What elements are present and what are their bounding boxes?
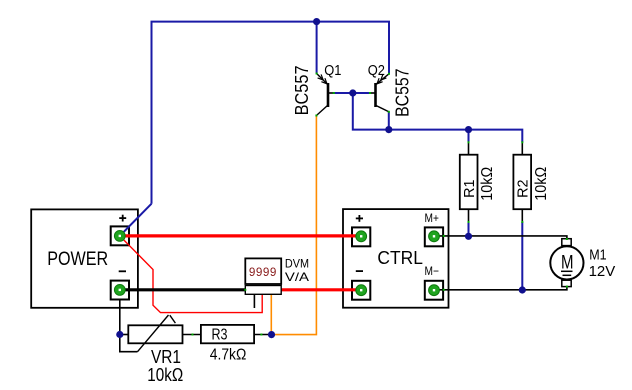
terminal CTRL M+ [429, 231, 440, 242]
wire V+ top rail [152, 22, 390, 204]
DVM meter [245, 258, 281, 294]
wire orange DVM pin3 drop [270, 294, 272, 334]
box CTRL outline [343, 209, 449, 308]
terminal CTRL minus [356, 285, 367, 296]
wire thick red DVM to CTRL minus [281, 288, 361, 291]
wire thick red POWER plus to CTRL plus [120, 234, 362, 237]
svg-text:9999: 9999 [249, 266, 277, 280]
svg-text:M+: M+ [425, 211, 439, 225]
junction R3 node [268, 331, 275, 338]
wire base net Q1-Q2 [334, 93, 522, 142]
terminal CTRL minus pad [352, 281, 370, 300]
transistor Q2 [370, 74, 390, 112]
svg-text:CTRL: CTRL [377, 248, 423, 268]
svg-text:R3: R3 [212, 327, 228, 344]
junction VR1 left [116, 331, 123, 338]
svg-text:M−: M− [425, 264, 439, 278]
label minus on POWER [119, 270, 126, 272]
pin markers green [192, 73, 568, 336]
terminal POWER plus pad [111, 226, 129, 245]
svg-text:R1: R1 [461, 180, 478, 198]
wire thick black POWER minus to DVM [120, 288, 246, 291]
label plus on CTRL [356, 215, 363, 222]
wire black CTRL M- to motor [434, 286, 567, 289]
wire R1 top stub [468, 130, 470, 143]
potentiometer VR1 [120, 315, 201, 352]
svg-text:DVM: DVM [285, 257, 309, 271]
terminal POWER minus [114, 285, 125, 296]
label minus on CTRL [356, 270, 363, 272]
wire R1 bottom stub [468, 222, 470, 236]
box POWER outline [31, 209, 138, 307]
svg-text:POWER: POWER [47, 249, 108, 270]
junction base node [349, 89, 356, 96]
terminal CTRL M+ pad [425, 227, 443, 246]
svg-text:R2: R2 [515, 180, 532, 198]
svg-text:Q1: Q1 [324, 62, 341, 79]
wire diagonal to POWER plus [120, 204, 152, 236]
wire black CTRL M+ to motor [434, 236, 567, 239]
motor M1 [550, 239, 583, 287]
wire black POWER minus down to VR1 [120, 299, 138, 352]
wire R2 bottom drop [521, 222, 523, 290]
terminal CTRL plus pad [352, 227, 370, 246]
junction R1 top [465, 126, 472, 133]
svg-text:10kΩ: 10kΩ [533, 167, 550, 201]
junction R1 bottom [465, 233, 472, 240]
junction top rail [313, 18, 320, 25]
terminal CTRL M- [429, 285, 440, 296]
terminal CTRL plus [356, 231, 367, 242]
svg-text:M1: M1 [589, 247, 606, 263]
svg-text:12V: 12V [589, 264, 616, 280]
wire black DVM pin1 stub [253, 294, 255, 308]
junction Q2 collector [385, 126, 392, 133]
terminal CTRL M- pad [425, 281, 443, 300]
svg-text:BC557: BC557 [393, 69, 413, 117]
resistor R3 [201, 325, 272, 344]
svg-text:V/A: V/A [285, 270, 309, 284]
terminal POWER plus [114, 231, 125, 242]
svg-text:4.7kΩ: 4.7kΩ [210, 347, 247, 364]
wire thin red POWER plus to DVM sense [120, 236, 262, 313]
svg-text:BC557: BC557 [292, 65, 312, 115]
transistor Q1 [316, 74, 334, 116]
wire Q2 collector drop [388, 112, 390, 130]
resistor R2 [513, 142, 531, 222]
junction R2 bottom [519, 286, 526, 293]
resistor R1 [460, 142, 478, 222]
svg-text:10kΩ: 10kΩ [479, 167, 496, 201]
svg-text:Q2: Q2 [368, 62, 385, 79]
label plus on POWER [119, 215, 126, 222]
terminal POWER minus pad [111, 281, 129, 300]
svg-text:10kΩ: 10kΩ [147, 365, 183, 385]
wire orange Q1 collector to R3/DVM node [272, 116, 317, 335]
